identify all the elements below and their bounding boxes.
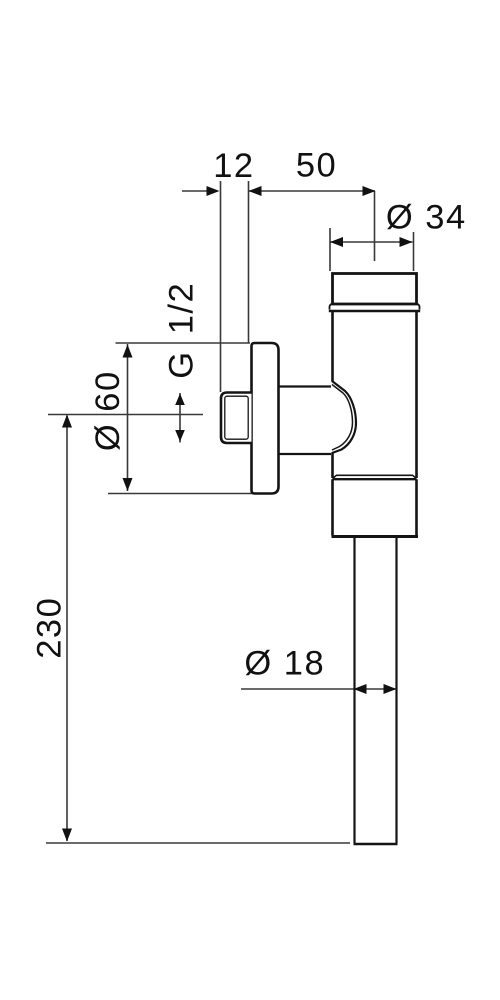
svg-text:50: 50 <box>296 147 337 185</box>
svg-text:Ø 60: Ø 60 <box>89 370 127 451</box>
svg-text:Ø 34: Ø 34 <box>386 199 467 237</box>
svg-text:12: 12 <box>213 147 254 185</box>
svg-text:G 1/2: G 1/2 <box>163 282 201 379</box>
svg-text:Ø 18: Ø 18 <box>244 645 325 683</box>
svg-text:230: 230 <box>31 597 69 659</box>
